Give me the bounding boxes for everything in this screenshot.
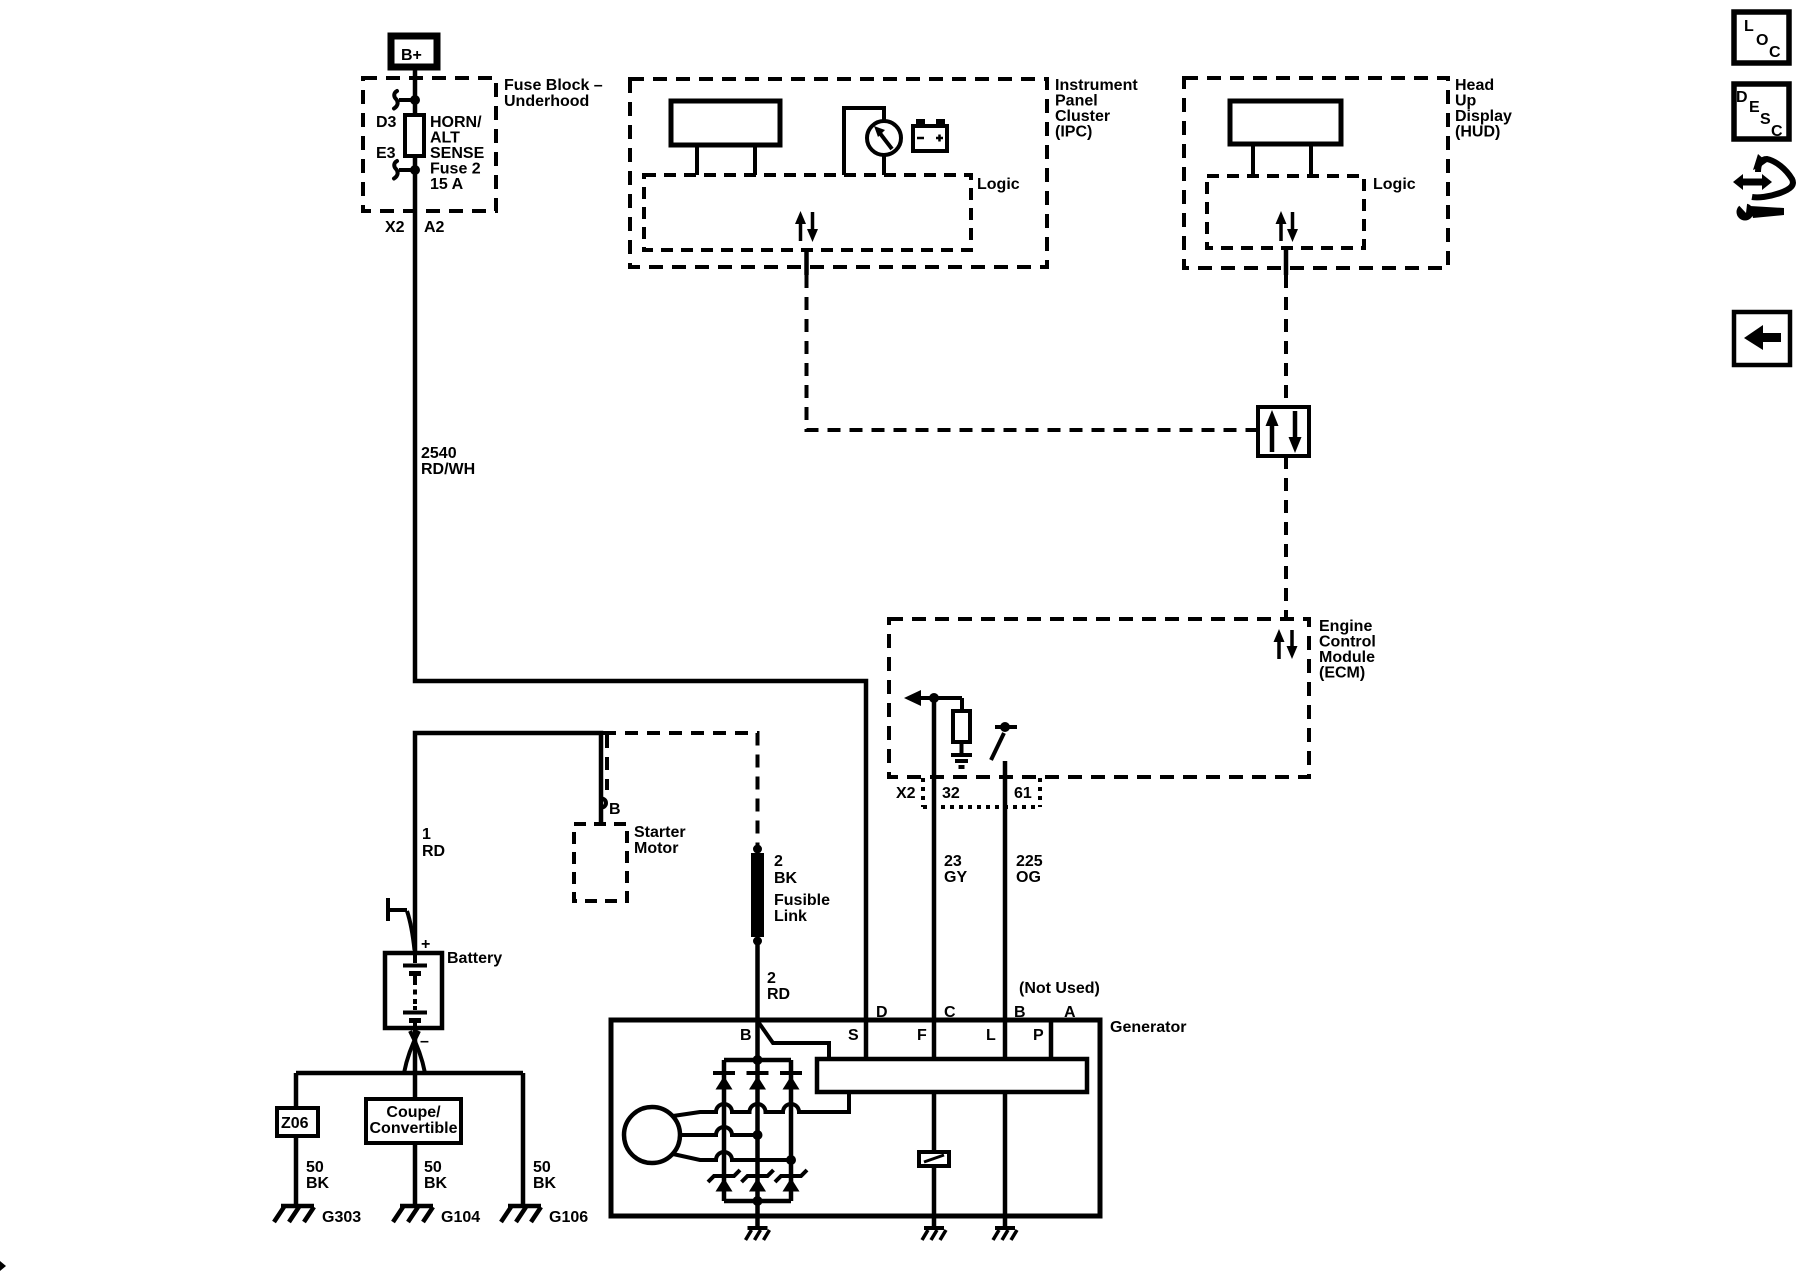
wire circuit 225 OG: ECM pin 61 to generator L (1003, 761, 1008, 1020)
node rectifier top rail junction (753, 1055, 763, 1065)
connector X2 pins 32 and 61 (dotted) (923, 778, 1040, 807)
svg-text:B: B (609, 801, 621, 818)
ECM serial data arrows (1274, 629, 1298, 659)
wire 50 BK to G303 (294, 1136, 299, 1206)
diode rectifier column 1 (713, 1060, 735, 1191)
svg-text:Logic: Logic (977, 176, 1020, 193)
stator winding phase 2 (680, 1127, 758, 1135)
svg-text:2: 2 (774, 853, 783, 870)
stator winding phase 1 to regulator (673, 1092, 849, 1116)
svg-text:(IPC): (IPC) (1055, 124, 1092, 141)
wire dashed branch to starter B terminal (605, 735, 609, 790)
instrument panel cluster IPC (dashed enclosure) (630, 79, 1047, 267)
svg-text:RD: RD (422, 843, 445, 860)
svg-text:BK: BK (424, 1175, 448, 1192)
wire L through generator to ground (1003, 1092, 1008, 1227)
node junction pin 32 net (929, 693, 939, 703)
svg-text:23: 23 (944, 853, 962, 870)
svg-text:Control: Control (1319, 634, 1376, 651)
svg-text:E3: E3 (376, 145, 396, 162)
svg-text:Engine: Engine (1319, 618, 1372, 635)
svg-text:Z06: Z06 (281, 1115, 309, 1132)
wire S terminal to regulator (864, 1020, 869, 1059)
wire 2 RD fusible link to generator B (755, 941, 760, 1020)
svg-text:A2: A2 (424, 219, 445, 236)
wire 50 BK to G106 (521, 1073, 526, 1206)
HUD logic block (dashed) (1207, 176, 1364, 248)
ground G303 (274, 1206, 314, 1222)
wire serial data IPC to interface box (dashed) (807, 275, 1257, 430)
serial data interface node (box with arrows) (1258, 407, 1309, 456)
diode rectifier column 3 (780, 1060, 802, 1191)
svg-text:Convertible: Convertible (369, 1120, 457, 1137)
fuse block - underhood (dashed enclosure) (363, 78, 496, 211)
wire fuse to E3 (413, 156, 418, 211)
wire serial data HUD to interface box (dashed) (1284, 275, 1288, 405)
wire battery positive branch: starter feed (415, 733, 601, 953)
voltage regulator block (817, 1059, 1087, 1092)
svg-text:L: L (1744, 18, 1754, 35)
svg-text:(ECM): (ECM) (1319, 665, 1365, 682)
svg-text:D: D (1736, 89, 1748, 106)
rotor field winding circle (624, 1107, 680, 1163)
svg-text:+: + (421, 936, 430, 953)
page corner mark (0, 1261, 6, 1271)
splice crow's foot at battery negative (404, 1031, 419, 1073)
svg-text:OG: OG (1016, 869, 1041, 886)
node D3 terminal junction (410, 95, 420, 105)
svg-text:RD/WH: RD/WH (421, 461, 475, 478)
svg-text:Fusible: Fusible (774, 892, 830, 909)
engine control module ECM (dashed enclosure) (889, 619, 1309, 777)
wire P terminal stub to regulator (1049, 1020, 1054, 1059)
svg-text:Head: Head (1455, 77, 1494, 94)
svg-text:SENSE: SENSE (430, 145, 485, 162)
IPC battery telltale icon (913, 119, 947, 151)
Z06 option block (277, 1108, 318, 1136)
svg-text:Battery: Battery (447, 950, 502, 967)
wire dashed to fusible link (603, 733, 758, 847)
wire gauge to logic (882, 155, 886, 175)
svg-text:Cluster: Cluster (1055, 108, 1110, 125)
svg-text:Starter: Starter (634, 824, 686, 841)
ground G104 (393, 1206, 433, 1222)
svg-text:B: B (1014, 1004, 1026, 1021)
wire 2540 RD/WH from fuse A2 down, right, to generator S terminal (415, 211, 866, 1020)
ground generator F circuit (922, 1228, 946, 1240)
node E3 terminal junction (410, 165, 420, 175)
svg-text:F: F (917, 1027, 927, 1044)
svg-text:Logic: Logic (1373, 176, 1416, 193)
node B terminal at starter motor (602, 799, 607, 808)
svg-text:A: A (1064, 1004, 1076, 1021)
ground generator L circuit (993, 1228, 1017, 1240)
IPC charge indicator gauge (844, 108, 901, 175)
switch (L terminal driver) in ECM (991, 722, 1017, 760)
svg-text:Motor: Motor (634, 840, 678, 857)
svg-text:P: P (1033, 1027, 1044, 1044)
svg-text:B: B (740, 1027, 752, 1044)
svg-text:32: 32 (942, 785, 960, 802)
svg-text:Display: Display (1455, 108, 1512, 125)
starter motor (dashed box) (574, 824, 627, 901)
icon back arrow button (1734, 312, 1790, 365)
svg-text:RD: RD (767, 986, 790, 1003)
svg-text:50: 50 (424, 1159, 442, 1176)
svg-text:G104: G104 (441, 1209, 480, 1226)
wire rectifier top rail (724, 1058, 791, 1063)
svg-text:Panel: Panel (1055, 93, 1098, 110)
svg-text:Link: Link (774, 908, 807, 925)
battery B1 (385, 936, 442, 1050)
ground G106 (501, 1206, 541, 1222)
svg-text:C: C (1771, 123, 1783, 140)
svg-text:Instrument: Instrument (1055, 77, 1138, 94)
wire ground bus 50 BK (296, 1071, 523, 1076)
wire B sense tap to regulator (759, 1023, 829, 1059)
svg-text:BK: BK (774, 870, 798, 887)
svg-text:225: 225 (1016, 853, 1043, 870)
svg-text:GY: GY (944, 869, 967, 886)
svg-text:Up: Up (1455, 93, 1477, 110)
fuse HORN/ALT SENSE Fuse 2 15A (405, 115, 424, 156)
node bottom rail junction (753, 1196, 763, 1206)
icon wiring/tools (double arrow with wrench) (1733, 154, 1793, 221)
svg-text:E: E (1749, 99, 1760, 116)
svg-text:X2: X2 (385, 219, 405, 236)
fusible link 2 BK (753, 845, 762, 854)
svg-text:50: 50 (306, 1159, 324, 1176)
svg-text:B+: B+ (401, 47, 422, 64)
svg-text:O: O (1756, 32, 1768, 49)
svg-text:BK: BK (533, 1175, 557, 1192)
ECM internal signal arrow (to logic) (904, 690, 962, 706)
svg-text:2: 2 (767, 970, 776, 987)
generator (solid enclosure) (611, 1020, 1100, 1216)
svg-text:(HUD): (HUD) (1455, 124, 1500, 141)
svg-text:L: L (986, 1027, 996, 1044)
svg-text:C: C (1769, 44, 1781, 61)
wire battery negative to ground splice (413, 1028, 418, 1099)
svg-text:50: 50 (533, 1159, 551, 1176)
svg-text:15 A: 15 A (430, 176, 464, 193)
ground generator rectifier (746, 1228, 770, 1240)
IPC display segment (671, 101, 780, 175)
svg-text:1: 1 (422, 826, 431, 843)
icon DESC button (1734, 84, 1789, 140)
battery positive post connector (386, 898, 415, 950)
wire serial data interface to ECM (dashed) (1284, 456, 1288, 619)
svg-text:Generator: Generator (1110, 1019, 1186, 1036)
svg-text:Fuse Block –: Fuse Block – (504, 77, 603, 94)
wire B rectifier bus (755, 1020, 760, 1216)
field brush element on F circuit (919, 1152, 949, 1166)
svg-text:Underhood: Underhood (504, 93, 589, 110)
HUD display segment (1230, 101, 1341, 176)
svg-text:–: – (420, 1033, 429, 1050)
wire F terminal to regulator (932, 1020, 937, 1059)
svg-text:HORN/: HORN/ (430, 114, 482, 131)
stator winding phase 3 (673, 1152, 791, 1160)
wire B rectifier to ground (755, 1216, 760, 1227)
svg-text:Fuse 2: Fuse 2 (430, 161, 481, 178)
node B+ battery positive feed (391, 36, 437, 67)
icon LOC button (1734, 12, 1789, 63)
IPC logic block (dashed) (644, 175, 971, 250)
wire IPC logic exit tick (804, 248, 809, 275)
wire to Z06 option block (294, 1073, 299, 1108)
head up display HUD (dashed enclosure) (1184, 78, 1448, 268)
svg-text:(Not Used): (Not Used) (1019, 980, 1100, 997)
wire HUD logic exit tick (1284, 248, 1289, 275)
IPC serial data arrows (795, 211, 818, 242)
svg-text:Module: Module (1319, 649, 1375, 666)
svg-text:61: 61 (1014, 785, 1032, 802)
wire L terminal to regulator (1003, 1020, 1008, 1059)
svg-text:G106: G106 (549, 1209, 588, 1226)
resistor pull-up in ECM (953, 698, 970, 753)
wire into fuse (413, 78, 418, 115)
ground chassis reference in ECM (951, 755, 972, 767)
wire circuit 23 GY: ECM pin 32 to generator F (932, 698, 937, 1020)
coupe/convertible option block (366, 1099, 461, 1143)
diode rectifier column 2 (747, 1073, 769, 1090)
svg-text:G303: G303 (322, 1209, 361, 1226)
svg-text:C: C (944, 1004, 956, 1021)
svg-text:BK: BK (306, 1175, 330, 1192)
wire B+ to fuse block (413, 67, 418, 80)
wire F through generator to ground (932, 1092, 937, 1152)
svg-text:D: D (876, 1004, 888, 1021)
svg-text:ALT: ALT (430, 130, 460, 147)
svg-text:X2: X2 (896, 785, 916, 802)
svg-text:D3: D3 (376, 114, 397, 131)
zener diode column 2 (742, 1170, 774, 1192)
svg-text:S: S (848, 1027, 859, 1044)
svg-text:S: S (1760, 111, 1771, 128)
HUD serial data arrows (1276, 211, 1299, 242)
wire rectifier bottom rail (724, 1199, 791, 1204)
zener diode column 3 (775, 1170, 807, 1201)
wire 50 BK to G104 (413, 1143, 418, 1206)
svg-text:Coupe/: Coupe/ (386, 1104, 441, 1121)
svg-text:2540: 2540 (421, 445, 457, 462)
zener diode column 1 (708, 1170, 740, 1201)
